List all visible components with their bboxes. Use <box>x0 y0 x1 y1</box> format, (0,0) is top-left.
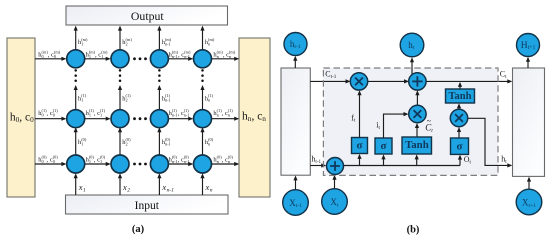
svg-text:(m): (m) <box>229 50 236 55</box>
svg-text:0: 0 <box>42 113 44 118</box>
svg-text:(1): (1) <box>165 93 171 98</box>
svg-text:n-1: n-1 <box>184 54 190 59</box>
svg-text:x: x <box>122 182 127 192</box>
svg-text:1: 1 <box>81 141 83 146</box>
svg-text:(0): (0) <box>81 137 87 142</box>
svg-text:(m): (m) <box>81 37 88 42</box>
svg-text:x: x <box>161 182 166 192</box>
svg-text:n-1: n-1 <box>165 42 171 47</box>
svg-text:σ: σ <box>457 140 463 152</box>
svg-text:1: 1 <box>89 54 91 59</box>
svg-text:(0): (0) <box>172 154 178 159</box>
svg-text:Input: Input <box>135 200 160 212</box>
svg-text:σ: σ <box>381 140 387 152</box>
svg-text:0: 0 <box>30 115 34 124</box>
svg-text:t+1: t+1 <box>529 203 537 209</box>
svg-text:(m): (m) <box>54 50 61 55</box>
svg-text:x: x <box>78 182 83 192</box>
svg-text:(m): (m) <box>101 50 108 55</box>
svg-text:~: ~ <box>427 116 432 125</box>
svg-text:(b): (b) <box>407 225 420 236</box>
svg-text:n-1: n-1 <box>165 141 171 146</box>
svg-text:2: 2 <box>127 187 130 193</box>
svg-text:n-1: n-1 <box>172 54 178 59</box>
svg-text:(0): (0) <box>126 137 132 142</box>
svg-text:(1): (1) <box>228 108 234 113</box>
svg-text:n-1: n-1 <box>165 98 171 103</box>
svg-text:n-1: n-1 <box>167 187 175 193</box>
svg-text:(0): (0) <box>53 154 59 159</box>
svg-text:2: 2 <box>126 42 128 47</box>
svg-text:Tanh: Tanh <box>405 139 429 151</box>
svg-text:1: 1 <box>89 159 91 164</box>
svg-text:(0): (0) <box>228 154 234 159</box>
svg-text:0: 0 <box>53 113 55 118</box>
svg-text:(1): (1) <box>100 108 106 113</box>
svg-text:, c: , c <box>251 111 262 123</box>
svg-text:, c: , c <box>19 112 30 124</box>
svg-text:0: 0 <box>42 159 44 164</box>
svg-text:1: 1 <box>101 54 103 59</box>
svg-text:(0): (0) <box>100 154 106 159</box>
svg-text:1: 1 <box>89 113 91 118</box>
svg-text:(1): (1) <box>53 108 59 113</box>
svg-text:n: n <box>262 114 266 123</box>
svg-text:1: 1 <box>100 159 102 164</box>
svg-text:t-1: t-1 <box>294 44 300 50</box>
svg-text:0: 0 <box>42 54 44 59</box>
svg-text:(1): (1) <box>172 108 178 113</box>
svg-text:1: 1 <box>81 42 83 47</box>
svg-text:0: 0 <box>54 54 56 59</box>
svg-text:(m): (m) <box>165 37 172 42</box>
svg-text:n-1: n-1 <box>184 113 190 118</box>
svg-text:x: x <box>205 182 210 192</box>
svg-text:(1): (1) <box>208 93 214 98</box>
svg-text:0: 0 <box>53 159 55 164</box>
svg-text:2: 2 <box>126 98 128 103</box>
svg-text:1: 1 <box>83 187 86 193</box>
svg-text:(0): (0) <box>208 137 214 142</box>
svg-text:(1): (1) <box>126 93 132 98</box>
svg-text:t+1: t+1 <box>528 45 536 51</box>
svg-text:(0): (0) <box>184 154 190 159</box>
svg-text:(1): (1) <box>81 93 87 98</box>
svg-text:(a): (a) <box>132 224 145 235</box>
svg-text:(m): (m) <box>126 37 133 42</box>
svg-text:(m): (m) <box>208 37 215 42</box>
svg-text:σ: σ <box>357 139 363 151</box>
svg-text:t-1: t-1 <box>331 74 337 80</box>
svg-text:2: 2 <box>126 141 128 146</box>
svg-text:Tanh: Tanh <box>449 91 472 102</box>
svg-text:(0): (0) <box>165 137 171 142</box>
svg-text:(1): (1) <box>184 108 190 113</box>
svg-text:1: 1 <box>100 113 102 118</box>
svg-text:t-1: t-1 <box>296 203 302 209</box>
svg-text:n-1: n-1 <box>184 159 190 164</box>
svg-text:1: 1 <box>81 98 83 103</box>
svg-text:(m): (m) <box>184 50 191 55</box>
svg-text:Output: Output <box>131 9 164 23</box>
svg-text:t-1: t-1 <box>315 159 321 165</box>
svg-text:n: n <box>210 187 213 193</box>
